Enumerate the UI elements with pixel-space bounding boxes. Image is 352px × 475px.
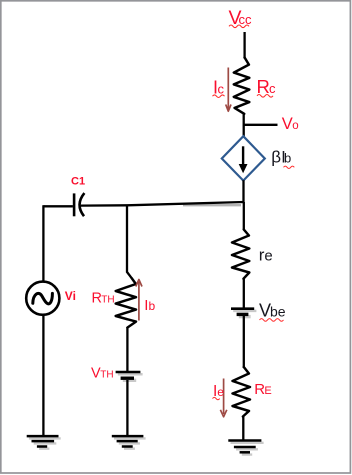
svg-text:R: R [257, 76, 270, 97]
label RE [254, 381, 271, 398]
battery Vbe [231, 309, 256, 317]
svg-text:cc: cc [239, 12, 253, 27]
wire Vo to dependent source [243, 125, 245, 137]
wire RE to ground [242, 416, 244, 440]
ground (Vi branch) [27, 436, 61, 449]
label RTH [92, 291, 115, 307]
node Vcc [229, 7, 253, 29]
wire node B to RTH [127, 205, 132, 278]
wire Vcc to Rc [243, 32, 245, 59]
svg-text:c: c [218, 82, 225, 97]
label Ie [213, 383, 225, 400]
svg-text:e: e [217, 385, 224, 399]
wire Rc to node Vo [243, 113, 245, 125]
resistor RTH [116, 278, 136, 327]
svg-text:TH: TH [100, 369, 113, 380]
label Ic [213, 78, 225, 98]
svg-text:b: b [149, 299, 156, 313]
label Ib [144, 297, 155, 314]
label VTH [91, 365, 114, 381]
wire C1 to Vi [43, 205, 73, 282]
svg-text:C1: C1 [71, 175, 85, 187]
svg-text:e: e [264, 247, 272, 264]
wire RTH to VTH [126, 327, 128, 371]
svg-text:c: c [269, 81, 276, 96]
label βIb [271, 147, 294, 168]
dependent current source βIb [222, 136, 265, 180]
svg-text:V: V [282, 115, 293, 133]
svg-text:TH: TH [101, 295, 114, 306]
current arrow Ib [136, 280, 142, 321]
wire dependent source to node B [242, 180, 244, 203]
ground (RTH branch) [112, 436, 146, 449]
resistor Rc [234, 58, 250, 114]
wire node B horizontal shadow [183, 204, 241, 206]
capacitor C1 [74, 193, 84, 216]
label Vo [282, 115, 299, 133]
label Vbe [259, 300, 286, 321]
wire Vi to ground [42, 315, 44, 435]
svg-text:o: o [292, 120, 298, 132]
resistor re [232, 230, 249, 279]
source Vi [26, 282, 59, 315]
ground (RE branch) [228, 441, 263, 455]
svg-text:Vi: Vi [65, 289, 76, 303]
wire Vbe to RE [243, 316, 245, 368]
svg-text:E: E [264, 385, 271, 397]
label Rc [257, 76, 277, 97]
wire node B horizontal [81, 202, 244, 206]
wire Vo stub [244, 124, 278, 126]
current arrow Ie [220, 379, 226, 417]
svg-text:be: be [270, 303, 286, 319]
wire re to Vbe [243, 278, 245, 308]
battery VTH [116, 372, 143, 380]
wire VTH to ground [126, 380, 128, 435]
svg-text:b: b [284, 150, 291, 165]
resistor RE [233, 367, 251, 417]
current arrow Ic [226, 68, 231, 112]
wire node B to re [243, 202, 245, 230]
